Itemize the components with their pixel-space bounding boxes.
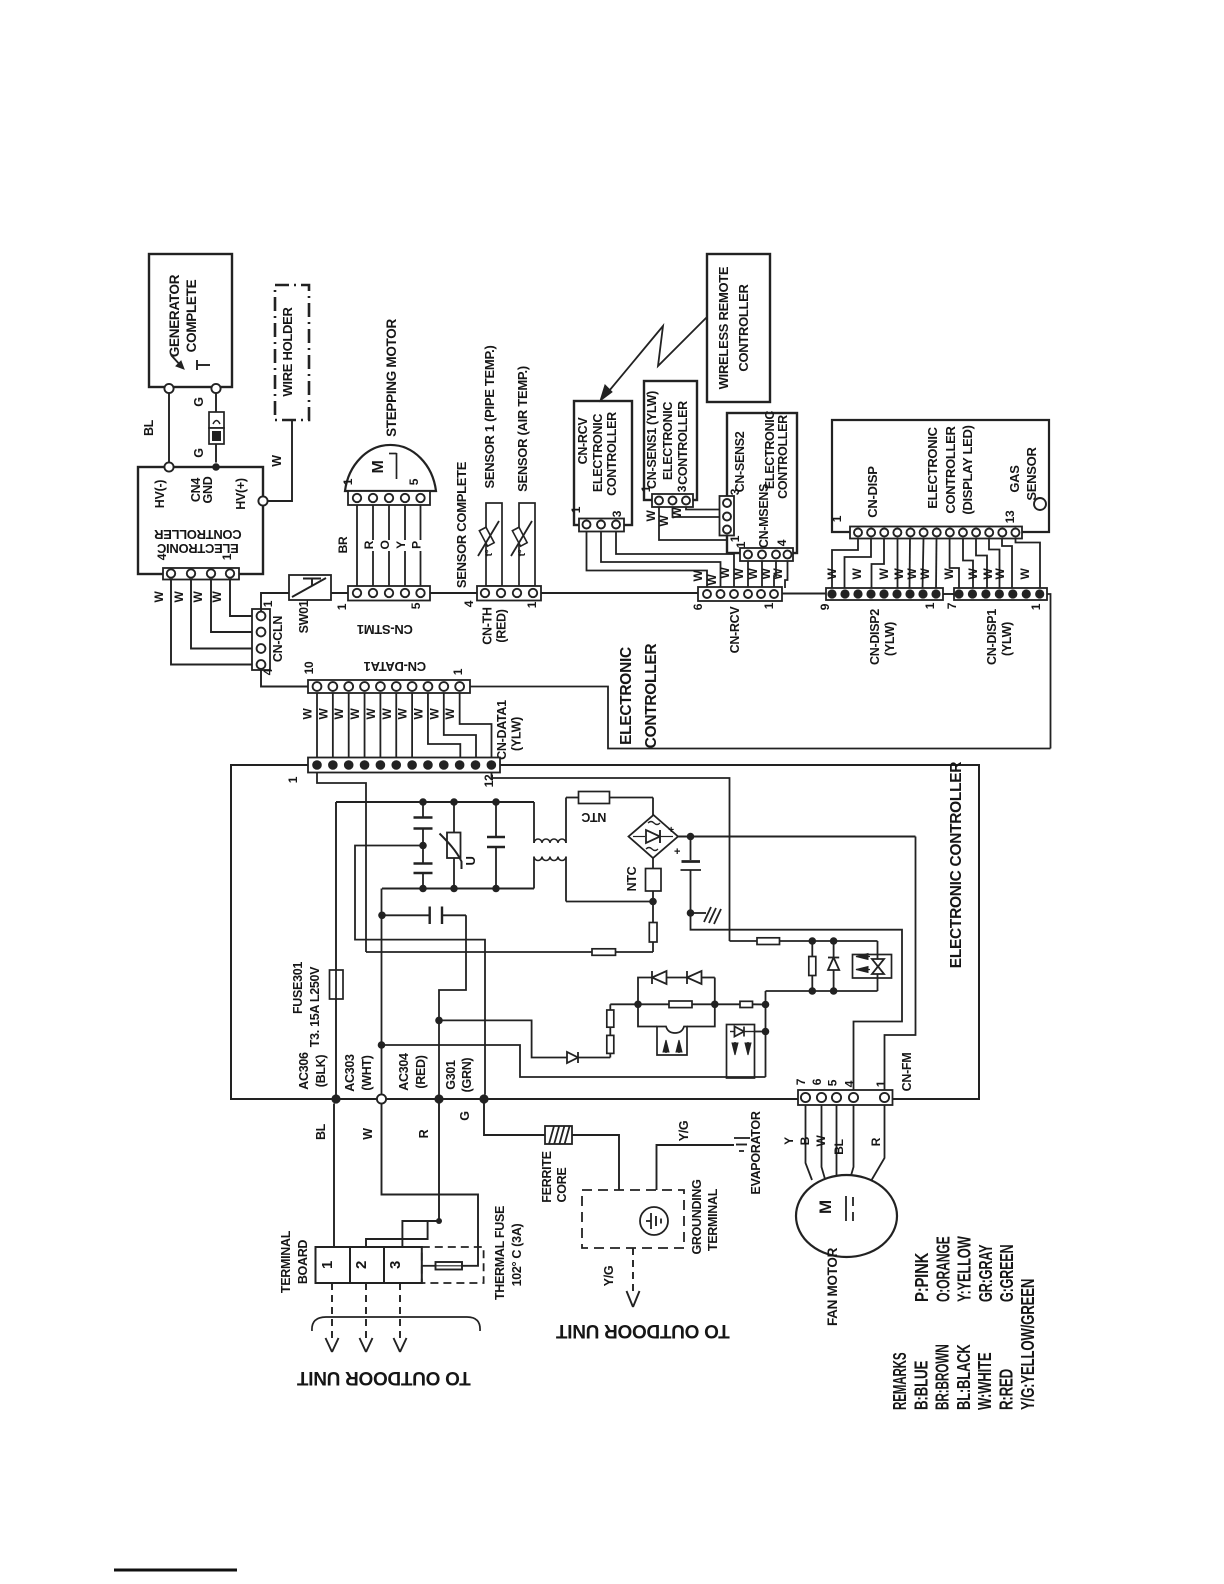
svg-text:TERMINAL: TERMINAL — [706, 1188, 720, 1251]
svg-text:WIRE HOLDER: WIRE HOLDER — [280, 307, 295, 397]
junction 638 — [634, 1001, 642, 1009]
bus wire CN-STM1 to CN-TH — [430, 592, 477, 594]
svg-text:1: 1 — [261, 600, 275, 607]
svg-text:W: W — [644, 510, 658, 522]
phototriac box — [853, 955, 892, 979]
wire sens1 pin1 — [659, 507, 727, 540]
svg-text:W: W — [380, 708, 394, 720]
svg-text:REMARKS: REMARKS — [889, 1353, 910, 1410]
ground symbol — [691, 912, 707, 914]
svg-text:t°: t° — [484, 549, 495, 556]
svg-text:(YLW): (YLW) — [510, 717, 524, 751]
svg-text:P: P — [410, 541, 424, 549]
filter bottom rail — [382, 888, 534, 890]
junction dots lower rail — [809, 987, 817, 995]
svg-text:BL:BLACK: BL:BLACK — [953, 1344, 974, 1410]
svg-text:(WHT): (WHT) — [360, 1055, 374, 1090]
svg-text:7: 7 — [945, 602, 959, 609]
wire CN-FM pin1 DC — [885, 837, 916, 1091]
dashed wire to outdoor 1 — [331, 1283, 333, 1340]
motor wire 2 — [372, 505, 374, 586]
generator box GENERATOR COMPLETE — [149, 254, 232, 387]
svg-text:(BLK): (BLK) — [314, 1055, 328, 1088]
junction NTC2 bottom — [649, 898, 657, 906]
svg-text:W: W — [942, 568, 956, 580]
svg-text:W: W — [361, 1128, 375, 1140]
svg-text:FERRITE: FERRITE — [540, 1151, 554, 1202]
sense wire row — [366, 951, 653, 953]
harness brace — [312, 1317, 480, 1331]
wire msens pin2 — [761, 561, 763, 588]
optocoupler2 diode — [730, 1031, 735, 1033]
svg-text:4: 4 — [261, 668, 275, 675]
svg-text:W: W — [191, 591, 205, 603]
svg-text:W: W — [877, 568, 891, 580]
svg-text:Y/G: Y/G — [677, 1121, 691, 1142]
svg-text:+: + — [668, 825, 674, 836]
svg-text:TERMINAL: TERMINAL — [279, 1230, 293, 1293]
generator terminal circles — [164, 384, 173, 393]
wire data1 pin10 — [460, 693, 492, 758]
svg-text:W: W — [364, 708, 378, 720]
upper PCB box right edge — [1047, 594, 1051, 749]
junction AC303 cap line — [378, 912, 386, 920]
svg-text:1: 1 — [220, 553, 234, 560]
svg-text:FUSE301: FUSE301 — [291, 962, 305, 1014]
wire CN-CLN pin1 to SW01 — [261, 593, 289, 611]
junction 714 — [711, 1001, 719, 1009]
svg-text:ELECTRONIC CONTROLLER: ELECTRONIC CONTROLLER — [948, 762, 965, 968]
svg-text:BL: BL — [142, 419, 156, 436]
svg-text:ELECTRONIC: ELECTRONIC — [591, 414, 605, 493]
wire data1 lower pin1 sense — [317, 773, 366, 953]
resistor on sense wire — [592, 949, 616, 956]
capacitor filter lower — [422, 846, 424, 863]
wire data1 pin7 — [411, 693, 413, 758]
connector CN-RCV 6pin — [698, 587, 782, 601]
svg-text:SENSOR (AIR TEMP.): SENSOR (AIR TEMP.) — [515, 366, 530, 492]
svg-text:1: 1 — [286, 776, 300, 783]
wire sens1 pin3 — [686, 507, 720, 510]
wire data1 pin5 — [379, 693, 381, 758]
svg-text:W: W — [348, 708, 362, 720]
wire disp pin12 to disp1 pin3 — [1002, 539, 1012, 590]
fuse FUSE301 — [330, 970, 344, 999]
wire data1 pin6 — [395, 693, 397, 758]
svg-text:G: G — [458, 1111, 472, 1120]
svg-text:BL: BL — [832, 1139, 846, 1154]
terminal AC306 — [331, 1094, 340, 1103]
svg-text:1: 1 — [335, 603, 349, 610]
wire msens pin1 — [747, 561, 749, 588]
terminal AC304 — [434, 1094, 443, 1103]
wire W from HV+ to wire holder — [268, 420, 293, 501]
svg-text:CN-FM: CN-FM — [900, 1053, 914, 1092]
svg-text:AC306: AC306 — [297, 1052, 311, 1090]
svg-text:W: W — [270, 455, 284, 467]
wire to diode loop left — [638, 978, 652, 1005]
svg-text:W:WHITE: W:WHITE — [974, 1353, 995, 1410]
svg-text:CN-DATA1: CN-DATA1 — [495, 700, 509, 760]
svg-text:W: W — [850, 568, 864, 580]
wire CN-CLN pin4 to CN-DATA1 — [261, 669, 308, 687]
svg-text:CN-CLN: CN-CLN — [271, 616, 285, 662]
wire disp pin11 to disp1 pin4 — [989, 539, 1000, 590]
connector CN-DATA1 lower — [308, 758, 500, 773]
power PCB box outline — [231, 765, 798, 1099]
wire BL to terminal 1 — [333, 1104, 335, 1248]
svg-text:SENSOR 1 (PIPE TEMP.): SENSOR 1 (PIPE TEMP.) — [482, 346, 497, 489]
wire AC306 BLK vertical — [335, 802, 337, 1099]
svg-text:1: 1 — [728, 535, 742, 542]
filter top rail — [336, 801, 534, 803]
svg-text:W: W — [332, 708, 346, 720]
svg-text:W: W — [172, 591, 186, 603]
wire disp pin1 to disp2 pin9 — [832, 539, 858, 590]
box CN-SENS2 CN-MSENS electronic controller — [727, 413, 797, 553]
svg-text:U: U — [463, 856, 478, 865]
wire opto1 left — [638, 1004, 657, 1026]
lower rail opto — [766, 990, 878, 992]
svg-text:EVAPORATOR: EVAPORATOR — [749, 1111, 763, 1194]
wire BL generator to controller — [168, 393, 170, 463]
svg-text:ELECTRONIC: ELECTRONIC — [618, 647, 635, 745]
svg-text:W: W — [210, 591, 224, 603]
svg-text:BR:BROWN: BR:BROWN — [932, 1344, 953, 1410]
svg-text:5: 5 — [407, 478, 421, 485]
svg-text:t°: t° — [517, 549, 528, 556]
wire terminal2 tap — [366, 1221, 439, 1247]
optocoupler1 box — [657, 1027, 687, 1056]
svg-text:GROUNDING: GROUNDING — [690, 1179, 704, 1254]
wire data1 pin1 — [316, 693, 318, 758]
electronic controller HV box — [138, 467, 263, 574]
svg-text:HV(+): HV(+) — [234, 478, 248, 510]
junction AC303 1045 — [378, 1041, 386, 1049]
wire NTC2 bottom — [652, 891, 654, 902]
wire AC303 WHT riser — [381, 889, 383, 1095]
varistor U — [453, 802, 455, 889]
wire rcv pin1 — [587, 532, 708, 589]
signal arrow from remote — [604, 317, 707, 397]
svg-text:NTC: NTC — [625, 866, 639, 891]
connector on CN-RCV box — [579, 519, 624, 532]
svg-text:SENSOR: SENSOR — [1024, 447, 1039, 501]
label Y wire4 — [401, 540, 410, 551]
electrolytic capacitor — [690, 837, 692, 861]
svg-text:HV(-): HV(-) — [153, 480, 167, 508]
thermistor symbol sensor1 — [479, 527, 494, 546]
svg-text:10: 10 — [302, 661, 316, 674]
thermal fuse symbol — [422, 1265, 436, 1267]
connector on CN-SENS1 box — [652, 494, 693, 507]
svg-text:Y/G:YELLOW/GREEN: Y/G:YELLOW/GREEN — [1017, 1279, 1038, 1410]
NTC lower — [652, 858, 654, 869]
svg-text:1: 1 — [569, 506, 583, 513]
svg-text:FAN MOTOR: FAN MOTOR — [825, 1247, 840, 1326]
svg-text:CONTROLLER: CONTROLLER — [676, 401, 690, 485]
box CN-SENS1 electronic controller — [644, 381, 697, 500]
svg-text:CORE: CORE — [555, 1168, 569, 1203]
wire W to thermal fuse — [382, 1104, 479, 1266]
gas sensor circle — [1034, 498, 1046, 510]
svg-text:W: W — [443, 708, 457, 720]
wire cap to AC304 — [439, 915, 466, 1094]
bus wire disp2 to disp1 — [943, 593, 954, 595]
svg-text:CN-SENS1 (YLW): CN-SENS1 (YLW) — [645, 391, 659, 489]
wire diode loop right — [714, 978, 716, 1005]
svg-text:BL: BL — [314, 1123, 328, 1140]
motor wire 5 — [420, 505, 422, 586]
wire disp pin6 — [923, 539, 924, 590]
connector CN-DISP2 — [826, 588, 943, 600]
svg-text:W: W — [705, 574, 719, 586]
svg-text:CONTROLLER: CONTROLLER — [643, 644, 660, 749]
optocoupler1 arrows — [663, 1040, 669, 1052]
svg-text:BR: BR — [336, 536, 350, 553]
fan motor wires — [806, 1105, 813, 1180]
svg-text:1: 1 — [762, 602, 776, 609]
wire msens pin4 — [785, 561, 788, 588]
sensor 2 body — [519, 503, 535, 586]
svg-text:M: M — [370, 460, 387, 473]
junction dots bottom rail — [419, 885, 427, 893]
svg-text:B:BLUE: B:BLUE — [910, 1361, 931, 1410]
svg-text:1: 1 — [639, 485, 653, 492]
svg-text:CN-DISP1: CN-DISP1 — [985, 609, 999, 665]
vertical 765 — [765, 991, 767, 1077]
svg-text:G: G — [192, 448, 206, 457]
connector CN-DISP1 — [954, 588, 1047, 600]
connector CN-DATA1 upper — [308, 680, 470, 693]
resistor on pin12 rail — [757, 938, 780, 945]
svg-text:T3. 15A L250V: T3. 15A L250V — [308, 966, 322, 1047]
wire R to terminal — [402, 1104, 439, 1248]
wire disp pin9 to disp1 pin6 — [963, 539, 973, 590]
wire data1 pin9 — [444, 693, 476, 758]
svg-text:W: W — [732, 568, 746, 580]
optocoupler2 box — [727, 1025, 755, 1079]
svg-text:GAS: GAS — [1007, 465, 1022, 493]
wire capacitor mid tap to G301 — [355, 846, 485, 1095]
svg-text:GENERATOR: GENERATOR — [167, 274, 182, 357]
svg-text:G:GREEN: G:GREEN — [996, 1245, 1017, 1302]
svg-text:R: R — [417, 1129, 431, 1138]
svg-text:AC304: AC304 — [397, 1053, 411, 1091]
dashed wire to outdoor 2 — [365, 1283, 367, 1340]
wire G lower segment — [215, 444, 217, 463]
junction dots top rail — [419, 798, 427, 806]
svg-text:BOARD: BOARD — [296, 1240, 310, 1285]
dashed wire Y/G outdoor — [632, 1248, 634, 1293]
generator T terminal symbol — [196, 360, 198, 370]
svg-text:W: W — [427, 708, 441, 720]
capacitor filter upper — [422, 802, 424, 817]
svg-text:CN-DATA1: CN-DATA1 — [364, 659, 426, 674]
display electronic controller box — [832, 420, 1049, 532]
svg-text:CN-DISP2: CN-DISP2 — [868, 609, 882, 665]
switch SW01 box — [289, 575, 331, 600]
label R wire2 — [369, 540, 378, 551]
svg-text:13: 13 — [1003, 510, 1017, 523]
wire disp pin5 — [909, 539, 912, 590]
svg-text:1: 1 — [874, 1080, 888, 1087]
svg-text:W: W — [301, 708, 315, 720]
footer line — [114, 1569, 237, 1572]
bus wire CN-TH to CN-RCV — [541, 592, 698, 594]
label P wire5 — [417, 540, 426, 551]
wire opto2 right — [755, 1031, 766, 1033]
svg-text:102° C (3A): 102° C (3A) — [510, 1223, 524, 1286]
thermal fuse dashed box — [422, 1247, 484, 1283]
svg-text:G: G — [192, 397, 206, 406]
wire pin12 rail — [730, 940, 758, 942]
svg-text:TO OUTDOOR UNIT: TO OUTDOOR UNIT — [297, 1367, 471, 1388]
wire disp pin10 to disp1 pin5 — [976, 539, 987, 590]
label O wire3 — [385, 540, 394, 551]
svg-text:CONTROLLER: CONTROLLER — [153, 527, 241, 542]
wire choke to NTC2 node — [566, 901, 653, 903]
svg-text:CONTROLLER: CONTROLLER — [776, 415, 790, 499]
wire data1 pin8 — [428, 693, 460, 758]
wire holder dash-dot box — [275, 285, 309, 420]
svg-text:(YLW): (YLW) — [883, 622, 897, 656]
sensor 1 body — [486, 503, 502, 586]
junction R tap — [436, 1218, 442, 1224]
connector CN-DISP 13pin — [850, 527, 1022, 539]
stepping motor connector — [348, 491, 430, 505]
svg-text:3: 3 — [387, 1261, 404, 1269]
mid rail 1004 — [610, 1003, 638, 1005]
svg-text:ELECTRONIC: ELECTRONIC — [661, 402, 675, 481]
wire data1 pin4 — [364, 693, 366, 758]
wire disp pin2 to disp2 pin8 — [845, 539, 872, 590]
svg-text:1: 1 — [1029, 603, 1043, 610]
capacitor horizontal — [382, 914, 430, 916]
svg-text:(RED): (RED) — [414, 1055, 428, 1088]
capacitor filter right — [495, 802, 497, 836]
svg-text:CONTROLLER: CONTROLLER — [943, 425, 958, 513]
svg-text:W: W — [825, 568, 839, 580]
wireless remote controller box — [707, 254, 770, 402]
wire rcv pin3 — [616, 532, 734, 589]
wire disp pin8 to disp1 pin7 — [950, 539, 959, 590]
svg-text:W: W — [718, 567, 732, 579]
evaporator ground symbol — [734, 1137, 750, 1139]
wire data1 pin2 — [332, 693, 334, 758]
svg-text:5: 5 — [409, 602, 423, 609]
junction capacitor midpoint — [419, 842, 427, 850]
svg-text:W: W — [905, 568, 919, 580]
wire data1 pin3 — [348, 693, 350, 758]
svg-text:ELECTRONIC: ELECTRONIC — [156, 541, 238, 556]
svg-text:4: 4 — [843, 1080, 857, 1087]
resistor below NTC2 — [652, 902, 654, 923]
svg-text:O:ORANGE: O:ORANGE — [932, 1236, 953, 1302]
svg-text:W: W — [993, 568, 1007, 580]
svg-text:W: W — [966, 568, 980, 580]
wire HV pin2 to CN-CLN pin2 — [211, 580, 252, 633]
svg-text:Y:YELLOW: Y:YELLOW — [954, 1236, 975, 1302]
svg-text:3: 3 — [610, 510, 624, 517]
svg-text:STEPPING MOTOR: STEPPING MOTOR — [384, 319, 399, 437]
svg-text:CN-TH: CN-TH — [481, 607, 495, 645]
svg-text:CN-STM1: CN-STM1 — [357, 622, 413, 637]
diode loop D2 — [686, 971, 688, 984]
svg-text:6: 6 — [691, 603, 705, 610]
svg-text:CONTROLLER: CONTROLLER — [736, 283, 751, 371]
motor wire 1 — [356, 505, 358, 586]
terminal G301 — [479, 1094, 488, 1103]
svg-text:GND: GND — [201, 476, 215, 503]
svg-text:1: 1 — [319, 1261, 336, 1269]
wire data1 lower pin12 — [492, 773, 730, 942]
junction 765 diode — [762, 1028, 770, 1036]
choke upper winding — [533, 802, 535, 843]
svg-text:(YLW): (YLW) — [1000, 622, 1014, 656]
svg-text:COMPLETE: COMPLETE — [184, 279, 199, 352]
svg-text:Y/G: Y/G — [602, 1266, 616, 1287]
svg-text:CN-SENS2: CN-SENS2 — [733, 431, 747, 492]
svg-text:CONTROLLER: CONTROLLER — [605, 412, 619, 496]
connector CN-FM — [798, 1090, 893, 1105]
junction AC304 diode tap — [435, 1017, 443, 1025]
connector CN-MSENS 4pin — [740, 548, 793, 561]
svg-text:W: W — [814, 1135, 828, 1147]
wire SW01 to CN-STM1 — [331, 592, 348, 594]
svg-text:CN-DISP: CN-DISP — [865, 466, 880, 518]
wire disp pin3 to disp2 pin6 — [872, 539, 885, 590]
terminal AC303 — [377, 1094, 386, 1103]
grounding terminal circle — [640, 1207, 668, 1235]
bus wire CN-RCV to CN-DISP2 — [782, 593, 826, 595]
wire G upper segment — [215, 393, 217, 412]
connector CN-SENS2 3pin — [720, 496, 735, 536]
svg-text:1: 1 — [341, 478, 355, 485]
svg-text:6: 6 — [810, 1078, 824, 1085]
diode lower left — [567, 1052, 578, 1063]
svg-text:R: R — [869, 1137, 883, 1146]
svg-text:9: 9 — [818, 603, 832, 610]
svg-text:W: W — [411, 708, 425, 720]
resistor chain vertical — [609, 1053, 611, 1057]
inline connector on G wire — [209, 412, 224, 428]
wire to right resistor — [715, 1003, 740, 1005]
svg-text:W: W — [316, 708, 330, 720]
svg-text:SW01: SW01 — [297, 600, 311, 633]
wire Y/G to evaporator — [657, 1145, 735, 1190]
svg-text:(GRN): (GRN) — [460, 1058, 474, 1093]
fan motor circle — [796, 1175, 897, 1257]
svg-text:WIRELESS REMOTE: WIRELESS REMOTE — [716, 266, 731, 389]
svg-text:4: 4 — [155, 553, 169, 560]
svg-text:GR:GRAY: GR:GRAY — [975, 1244, 996, 1302]
wire G to ferrite — [484, 1104, 545, 1136]
svg-text:7: 7 — [794, 1078, 808, 1085]
generator output arrow symbol — [171, 355, 182, 367]
stepping motor body — [345, 445, 436, 491]
svg-text:W: W — [918, 568, 932, 580]
svg-text:NTC: NTC — [581, 810, 606, 824]
diode vertical — [833, 941, 835, 958]
choke lower winding — [533, 857, 535, 889]
svg-text:Y: Y — [782, 1137, 796, 1145]
motor wire 3 — [388, 505, 390, 586]
svg-text:1: 1 — [923, 602, 937, 609]
svg-text:4: 4 — [775, 539, 789, 546]
svg-text:W: W — [892, 568, 906, 580]
diode branch wire — [439, 1020, 567, 1057]
